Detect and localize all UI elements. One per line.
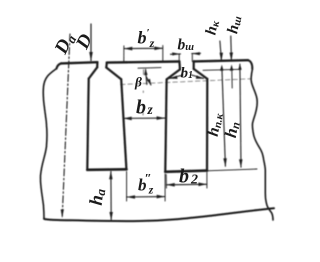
tooth 3 right rounded corner <box>248 60 252 69</box>
tooth 2 head underside thin line <box>138 67 161 70</box>
dimension bsh: arrows outside pointing inward <box>171 53 201 54</box>
b'z extension lines <box>124 46 163 62</box>
top surface left segment (tooth 1 head top) <box>61 62 97 63</box>
tooth 2 body left side <box>121 79 126 169</box>
svg-text:b2: b2 <box>179 166 198 188</box>
dimension ha vertical <box>110 172 112 220</box>
dimension D arrow <box>90 24 92 61</box>
svg-text:bz: bz <box>136 97 154 119</box>
svg-text:hк: hк <box>202 19 222 36</box>
svg-text:D: D <box>72 31 97 54</box>
label hp.k (rotated) <box>205 111 226 137</box>
tooth 2 head left edge <box>105 63 108 68</box>
label hk (rotated) <box>202 19 222 36</box>
slot bottom extension line to right (for hp dims) <box>207 169 257 171</box>
left rounded corner of lamination <box>57 63 62 68</box>
label hsh (rotated) <box>224 14 244 35</box>
tooth 2 head right edge <box>178 62 181 70</box>
tooth 2 centerline dashes <box>142 70 145 116</box>
dimension b''z: extension lines, line, arrows <box>127 172 166 202</box>
tooth 2 left chamfer <box>106 68 121 80</box>
dimension bz: line and arrows <box>123 117 165 119</box>
right wavy break edge <box>251 69 273 220</box>
dimension Da dash-dot line with bottom arrow <box>62 34 70 218</box>
tooth 3 thin line under head (slot-opening bottom) <box>203 69 240 70</box>
label Da <box>50 29 79 58</box>
beta angle arrows <box>146 69 147 84</box>
tooth 3 head left edge <box>193 61 195 69</box>
tooth 3 (right) head top <box>194 60 248 61</box>
label ha (rotated) <box>87 187 109 206</box>
svg-text:b″z: b″z <box>138 171 154 197</box>
svg-text:b′z: b′z <box>138 27 155 50</box>
dimension hk leader line with arrow onto top surface <box>220 41 222 61</box>
bsh extension lines <box>179 55 192 62</box>
slot 1 bottom <box>87 168 126 171</box>
tooth 1 head chamfer <box>89 67 98 78</box>
hsh lower up-arrow and short stem <box>230 65 234 71</box>
svg-text:ha: ha <box>87 187 109 206</box>
svg-text:β: β <box>134 75 142 90</box>
dashed b1 level line <box>121 79 251 85</box>
label D <box>72 31 97 54</box>
tooth 1 body right side <box>87 79 88 170</box>
tooth 2 body right side <box>165 79 166 171</box>
hk lower up-arrow (start of hp.k line) <box>220 65 224 71</box>
tooth 3 body left side (slot 2 right wall) <box>206 79 209 171</box>
tooth 3 left chamfer <box>194 69 208 79</box>
bottom yoke line <box>44 208 274 221</box>
left wavy break edge <box>40 69 56 219</box>
dimension b'z: line and arrows <box>124 47 163 49</box>
dimension hsh leader line with arrow onto top surface <box>230 36 233 60</box>
slot 2 bottom <box>165 171 207 172</box>
dimension hp vertical line with up arrow under surface <box>240 64 241 167</box>
dimension hp.k vertical line <box>222 68 226 166</box>
svg-text:hш: hш <box>224 14 244 35</box>
svg-text:bш: bш <box>178 37 195 54</box>
dimension b2: extension lines, line, arrows <box>166 173 207 189</box>
tooth 2 right chamfer <box>167 69 180 79</box>
tooth 1 head right edge <box>96 62 98 67</box>
svg-text:b1: b1 <box>181 66 194 82</box>
label hp (rotated) <box>221 120 243 140</box>
b1 leader arrows <box>170 75 184 78</box>
tooth 2 (middle) head top <box>107 62 180 63</box>
